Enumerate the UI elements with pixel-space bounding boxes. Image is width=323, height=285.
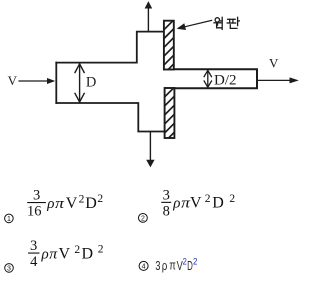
svg-text:ρ: ρ — [162, 259, 168, 273]
label: 원판 (disc, drawn strokes) — [214, 17, 239, 29]
option marker 2 — [139, 214, 148, 223]
svg-text:2: 2 — [205, 193, 211, 205]
arrow: leader to disc label — [177, 20, 212, 30]
formula 3: 3/4 rho pi V^2 D^2 — [28, 238, 104, 270]
option marker 3 — [5, 264, 14, 273]
svg-text:2: 2 — [97, 193, 103, 205]
svg-text:2: 2 — [79, 193, 85, 205]
wire: pipe lower outline (inlet bottom to lower disc) — [56, 103, 164, 132]
formula 2: 3/8 rho pi V^2 D^2 — [161, 187, 235, 219]
svg-text:D: D — [187, 258, 193, 273]
svg-text:V: V — [59, 245, 71, 262]
option marker 1 — [5, 214, 14, 223]
arrow: flow up (top) — [145, 1, 153, 31]
svg-text:2: 2 — [98, 243, 104, 255]
option marker 4 — [139, 261, 148, 270]
svg-text:2: 2 — [193, 257, 197, 268]
svg-text:2: 2 — [141, 216, 145, 223]
svg-text:D: D — [85, 195, 97, 212]
svg-text:V: V — [66, 195, 78, 212]
wire: pipe inlet left edge — [55, 63, 57, 103]
svg-text:D: D — [86, 75, 96, 91]
arrow: inlet velocity V (left) — [19, 78, 55, 84]
svg-text:16: 16 — [27, 204, 42, 220]
svg-text:3: 3 — [7, 266, 11, 273]
dimension arrow: D/2 (outlet diameter) — [204, 70, 211, 87]
svg-text:8: 8 — [163, 204, 170, 220]
arrow: outlet velocity V (right) — [258, 77, 299, 83]
svg-text:ρ: ρ — [172, 196, 180, 212]
disc upper half (hatched) — [163, 17, 177, 75]
arrow: flow down (bottom) — [146, 132, 154, 167]
disc lower half (hatched) — [163, 85, 177, 144]
svg-text:3: 3 — [33, 188, 40, 204]
svg-text:D: D — [82, 245, 94, 262]
svg-text:4: 4 — [30, 254, 38, 270]
svg-text:V: V — [269, 56, 279, 71]
svg-text:2: 2 — [74, 244, 80, 256]
svg-text:3: 3 — [30, 238, 37, 254]
svg-text:3: 3 — [163, 187, 170, 203]
svg-text:D/2: D/2 — [214, 72, 237, 88]
svg-text:4: 4 — [142, 264, 146, 271]
svg-text:3: 3 — [155, 258, 160, 273]
wire: pipe upper outline (inlet top to upper disc) — [56, 32, 163, 63]
svg-text:π: π — [169, 259, 176, 273]
wire: outlet pipe (D/2) — [174, 69, 257, 88]
svg-text:π: π — [49, 246, 58, 262]
svg-text:ρ: ρ — [41, 246, 49, 262]
svg-text:ρ: ρ — [46, 196, 54, 212]
svg-text:V: V — [190, 195, 202, 212]
svg-text:D: D — [212, 195, 224, 212]
svg-text:2: 2 — [229, 193, 235, 205]
svg-text:π: π — [55, 196, 64, 212]
svg-text:1: 1 — [7, 216, 11, 223]
formula 1: 3/16 rho pi V^2 D^2 — [27, 188, 103, 220]
formula 4: 3 rho pi V^2 D^2 (small style) — [155, 257, 197, 273]
dimension arrow: D (inlet diameter) — [75, 64, 84, 102]
svg-text:V: V — [8, 73, 18, 88]
